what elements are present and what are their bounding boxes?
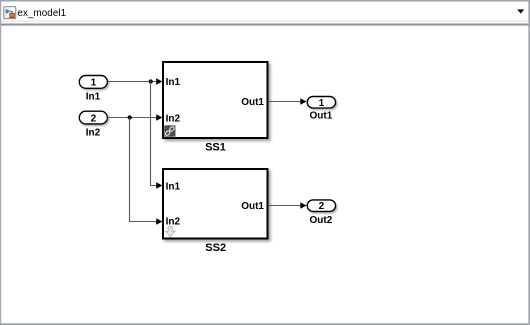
svg-text:1: 1 [91,78,97,89]
wire SS1/Out1 to Out1 [269,98,307,105]
wire SS2/Out1 to Out2 [269,202,307,209]
svg-text:Out2: Out2 [310,215,333,226]
SS2 arrow badge [165,226,175,237]
SS1 link badge [164,125,175,136]
svg-text:ex_model1: ex_model1 [17,8,66,19]
inport In1 [79,76,107,103]
outport Out2 [307,200,335,226]
wire In1 to SS1/In1 [108,78,163,85]
subsystem SS2 [163,169,268,239]
svg-text:Out1: Out1 [241,201,264,212]
svg-text:Out1: Out1 [310,111,333,122]
svg-text:SS1: SS1 [205,141,226,153]
window title bar [0,0,530,26]
inport In2 [79,111,107,138]
svg-text:1: 1 [319,98,325,109]
svg-text:SS2: SS2 [205,242,226,254]
wire branch to SS2/In2 [130,118,163,225]
wire In2 to SS1/In2 [108,114,163,121]
svg-text:2: 2 [91,113,97,124]
dropdown arrow [517,9,524,13]
junction on In1 wire [149,79,153,83]
svg-text:Out1: Out1 [241,97,264,108]
model icon [4,7,16,19]
svg-text:In2: In2 [86,127,101,138]
svg-text:In2: In2 [166,113,181,124]
svg-text:2: 2 [319,201,325,212]
svg-text:In1: In1 [166,77,181,88]
subsystem SS1 [163,62,268,138]
junction on In2 wire [128,115,132,119]
svg-text:In1: In1 [166,181,181,192]
outport Out1 [307,97,335,122]
wire branch to SS2/In1 [151,82,163,189]
svg-text:In1: In1 [86,92,101,103]
